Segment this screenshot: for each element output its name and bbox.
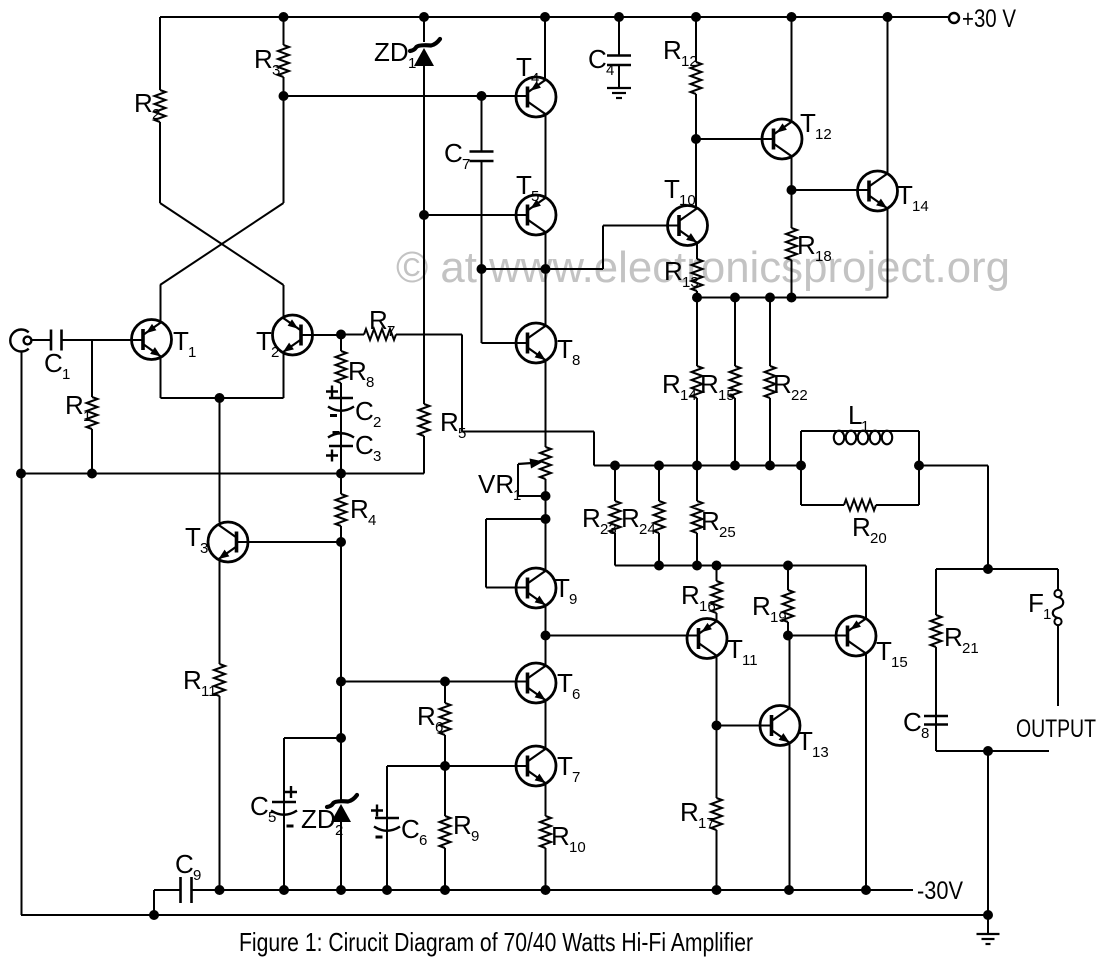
wire output top line (936, 568, 1058, 570)
wire VR1 bottom lead (545, 479, 547, 496)
node R15 bottom junction (730, 461, 740, 471)
wire through C2-C3 (340, 398, 342, 446)
wire C4 top lead (618, 17, 620, 56)
svg-text:C: C (588, 44, 607, 74)
wire C7 bottom lead (481, 161, 483, 343)
svg-text:19: 19 (770, 609, 787, 626)
resistor R4 (336, 494, 347, 526)
node T15 rail junction (861, 885, 871, 895)
wire T8 base line (482, 342, 528, 344)
resistor R17 (711, 798, 722, 830)
wire lower bias line (615, 565, 866, 567)
svg-text:5: 5 (268, 809, 276, 826)
svg-text:R: R (417, 701, 436, 731)
capacitor C2 (328, 398, 354, 411)
svg-text:2: 2 (335, 822, 343, 839)
transistor T13 (760, 706, 800, 746)
resistor R25 (692, 501, 703, 533)
capacitor C4 (607, 56, 631, 66)
resistor R18 label (797, 230, 832, 265)
wire T6 base line (341, 681, 528, 683)
transistor T13 label (797, 726, 829, 761)
resistor R19 (783, 590, 794, 622)
wire T2 base to R8 junction (301, 334, 341, 336)
wire C7 top lead (481, 96, 483, 152)
wire T2 collector riser (283, 285, 285, 318)
wire T12 base line (696, 138, 774, 140)
wire R2 top lead (159, 17, 161, 90)
wire ZD2 bottom lead (340, 820, 342, 890)
capacitor C2 label (355, 396, 381, 431)
wire R20 bottom side right (876, 504, 919, 506)
ground output (977, 934, 1000, 944)
node ZD1 T5-base junction (419, 210, 429, 220)
wire R9 top lead (444, 766, 446, 816)
resistor R14 label (662, 369, 697, 404)
wire R22 bottom lead (769, 398, 771, 466)
svg-text:2: 2 (152, 106, 160, 123)
input terminal (10, 329, 31, 351)
node C5 rail junction (279, 885, 289, 895)
svg-text:C: C (44, 348, 63, 378)
wire C6 top lead (386, 766, 388, 890)
wire R16 to T11 (716, 613, 718, 621)
svg-text:R: R (369, 305, 388, 335)
svg-text:R: R (797, 230, 816, 260)
node ground rail junction (983, 910, 993, 920)
capacitor C7 (470, 152, 494, 162)
wire R19 bottom lead (787, 622, 789, 636)
wire C5 hook (284, 738, 341, 890)
wire T3 emitter to R11 (219, 560, 221, 664)
plus sign C3 (326, 450, 338, 462)
svg-text:+30 V: +30 V (962, 5, 1016, 33)
resistor R25 label (701, 506, 736, 541)
node T5-T8 junction (541, 264, 551, 274)
wire R23 bottom lead (614, 533, 616, 566)
plus sign C6 (371, 805, 383, 817)
wire L1 box to output corner (919, 466, 988, 570)
wire R12 top lead (695, 17, 697, 62)
resistor R23 (610, 501, 621, 533)
wire R12 bottom lead (695, 94, 697, 139)
zener ZD1 (410, 39, 440, 66)
capacitor C5 (271, 802, 297, 815)
wire L1 box left edge (800, 431, 802, 505)
svg-text:6: 6 (572, 686, 580, 703)
svg-text:T: T (557, 668, 573, 698)
potentiometer VR1 (540, 447, 551, 479)
svg-text:R: R (681, 580, 700, 610)
capacitor C6 label (401, 814, 427, 849)
svg-text:12: 12 (681, 53, 698, 70)
capacitor C5 label (250, 791, 276, 826)
node C7 top junction (477, 91, 487, 101)
capacitor C7 label (444, 138, 470, 173)
svg-text:T: T (876, 636, 892, 666)
svg-text:R: R (348, 356, 367, 386)
svg-text:F: F (1028, 588, 1044, 618)
node VR1 wiper junction (541, 491, 551, 501)
svg-text:R: R (551, 821, 570, 851)
svg-text:3: 3 (272, 62, 280, 79)
svg-text:ZD: ZD (374, 37, 409, 67)
svg-text:T: T (557, 751, 573, 781)
potentiometer VR1 wiper arrow (518, 459, 544, 469)
transistor T6 (516, 663, 556, 703)
node ZD2 rail junction (336, 885, 346, 895)
wire T11 collector lead (716, 656, 718, 726)
node T13 rail junction (784, 885, 794, 895)
svg-text:2: 2 (271, 344, 279, 361)
capacitor C3 (328, 433, 354, 446)
resistor R11 label (183, 665, 217, 700)
resistor R8 label (348, 356, 374, 391)
svg-text:R: R (453, 810, 472, 840)
resistor R13 (692, 259, 703, 291)
svg-text:R: R (701, 506, 720, 536)
svg-text:T: T (664, 174, 680, 204)
resistor R22 label (773, 369, 808, 404)
resistor R11 (214, 664, 225, 696)
wire feedback line to R5 (21, 473, 424, 475)
node C6 rail junction (382, 885, 392, 895)
ground C4 (607, 88, 631, 98)
svg-text:Figure 1: Cirucit Diagram of 7: Figure 1: Cirucit Diagram of 70/40 Watts… (239, 927, 753, 957)
inductor L1 (834, 431, 844, 445)
resistor R9 (440, 816, 451, 848)
wire T7 emitter to R10 (545, 784, 547, 817)
wire R19 top lead (787, 566, 789, 591)
minus sign C5 (287, 825, 294, 828)
wire T8 collector lead (545, 269, 547, 326)
transistor T10 label (664, 174, 696, 209)
zener ZD1 label (374, 37, 416, 72)
transistor T1 (132, 320, 172, 360)
node R13 bottom junction (692, 293, 702, 303)
node R10 rail junction (541, 885, 551, 895)
resistor R19 label (752, 591, 787, 626)
node R3 bottom junction (279, 91, 289, 101)
node R6-R9 junction (440, 761, 450, 771)
wire junction to T9 collector (545, 496, 547, 571)
wire driver emitter bus (697, 297, 888, 299)
svg-text:T: T (557, 334, 573, 364)
transistor T3 (208, 522, 248, 562)
node R4-chain T6 base junction (336, 677, 346, 687)
svg-text:13: 13 (812, 744, 829, 761)
svg-text:R: R (852, 512, 871, 542)
wire rail to T12 emitter (791, 17, 793, 122)
capacitor C8 (924, 716, 948, 725)
svg-text:10: 10 (679, 192, 696, 209)
svg-text:3: 3 (373, 448, 381, 465)
svg-text:T: T (797, 726, 813, 756)
wire T1-T2 emitter join (161, 397, 284, 399)
svg-text:C: C (401, 814, 420, 844)
resistor R24 label (621, 503, 656, 538)
wire ground stub (987, 915, 989, 934)
svg-text:8: 8 (572, 352, 580, 369)
svg-text:ZD: ZD (301, 804, 336, 834)
wire ZD1 bottom lead (423, 64, 425, 215)
svg-text:C: C (175, 849, 194, 879)
wire R4 junction down chain (340, 542, 342, 802)
svg-text:2: 2 (373, 414, 381, 431)
node input ground junction (16, 469, 26, 479)
node R15 top junction (730, 293, 740, 303)
wire T1 emitter lead (160, 358, 162, 399)
resistor R23 label (582, 503, 617, 538)
wire T4 to T5 (545, 115, 547, 198)
node R24 bottom junction (654, 561, 664, 571)
resistor R12 (691, 62, 702, 94)
svg-text:R: R (680, 797, 699, 827)
resistor R4 label (350, 494, 376, 529)
transistor T15 label (876, 636, 908, 671)
node R1 bottom junction (87, 469, 97, 479)
svg-text:R: R (700, 369, 719, 399)
svg-text:C: C (903, 707, 922, 737)
node R16 top junction (712, 561, 722, 571)
wire R24 bottom lead (658, 533, 660, 566)
svg-text:9: 9 (471, 828, 479, 845)
wire C4 to ground (618, 65, 620, 88)
wire L1 box right edge (918, 431, 920, 505)
resistor R16 label (681, 580, 716, 615)
svg-text:T: T (897, 180, 913, 210)
plus sign C2 (326, 386, 338, 398)
wire R16 top lead (716, 566, 718, 582)
minus sign C6 (376, 836, 383, 839)
wire R14 top lead (696, 298, 698, 367)
node T14 rail junction (883, 12, 893, 22)
wire crossover diagonal left-to-right (160, 203, 284, 285)
node T9-T6 junction (541, 631, 551, 641)
node C5 hook junction (336, 733, 346, 743)
svg-text:25: 25 (719, 524, 736, 541)
wire R21 top lead (935, 569, 937, 615)
capacitor C9 (181, 877, 192, 903)
transistor T12 (762, 119, 802, 159)
transistor T14 label (897, 180, 929, 215)
wire crossover diagonal right-to-left (160, 203, 284, 285)
wire F1 top lead (1057, 569, 1059, 590)
svg-text:R: R (663, 35, 682, 65)
svg-text:8: 8 (921, 725, 929, 742)
node R6 top junction (440, 677, 450, 687)
node R8 top junction (336, 330, 346, 340)
node T9 collector junction (541, 514, 551, 524)
plus sign C5 (285, 786, 297, 798)
svg-text:4: 4 (531, 70, 539, 87)
node L1 right junction (914, 461, 924, 471)
wire L1 top side (801, 430, 919, 432)
transistor T12 label (800, 108, 832, 143)
resistor R3 (278, 45, 289, 77)
wire T13 base line (717, 725, 772, 727)
node R12 bottom junction (691, 134, 701, 144)
resistor R5 label (440, 407, 466, 442)
wire VR1 wiper hook (518, 464, 546, 496)
svg-text:1: 1 (188, 344, 196, 361)
resistor R7 (364, 329, 396, 340)
svg-text:T: T (800, 108, 816, 138)
wire C3 node to R4 (340, 474, 342, 495)
node R14 bottom junction (692, 461, 702, 471)
wire R3 junction to T4 base (284, 95, 528, 97)
wire R8 to C2 (340, 383, 342, 398)
resistor R2 (155, 90, 166, 122)
svg-text:R: R (662, 369, 681, 399)
wire F1 bottom lead (1057, 625, 1059, 706)
node C3 bottom junction (336, 469, 346, 479)
svg-text:6: 6 (419, 832, 427, 849)
svg-text:R: R (65, 390, 84, 420)
wire T7 base line (387, 765, 528, 767)
svg-text:R: R (582, 503, 601, 533)
wire R9 bottom lead (444, 848, 446, 890)
resistor R20 label (852, 512, 887, 547)
wire R8 top lead (340, 335, 342, 352)
transistor T5 (516, 195, 556, 235)
capacitor C1 (51, 330, 62, 351)
wire junction to T10 collector (695, 139, 697, 208)
svg-text:T: T (256, 326, 272, 356)
svg-text:11: 11 (742, 652, 758, 669)
wire R18 bottom lead (791, 260, 793, 298)
svg-text:R: R (350, 494, 369, 524)
transistor T11 (687, 619, 727, 659)
svg-text:15: 15 (891, 654, 908, 671)
svg-text:22: 22 (791, 387, 808, 404)
wire output down to ground rail (987, 751, 989, 915)
node T12-T14 junction (787, 185, 797, 195)
resistor R21 label (944, 622, 979, 657)
node R12 rail junction (691, 12, 701, 22)
resistor R21 (931, 615, 942, 647)
zener ZD2 (327, 795, 357, 822)
wire T2 emitter lead (283, 353, 285, 398)
wire R1 top lead (91, 340, 93, 398)
svg-text:9: 9 (569, 591, 577, 608)
wire T5 base line (424, 214, 528, 216)
svg-text:17: 17 (698, 815, 715, 832)
svg-text:C: C (355, 430, 374, 460)
wire T5 to junction (545, 233, 547, 270)
svg-text:7: 7 (462, 156, 470, 173)
transistor T3 label (185, 522, 208, 557)
wire T1 collector riser (160, 285, 162, 322)
wire T3 base line (237, 541, 341, 543)
svg-text:14: 14 (680, 387, 697, 404)
resistor R6 label (417, 701, 443, 736)
svg-text:18: 18 (815, 248, 832, 265)
wire T11 base line (546, 635, 699, 637)
resistor R7 label (369, 305, 395, 340)
svg-text:16: 16 (699, 598, 716, 615)
wire input jack down lead (21, 351, 23, 915)
wire ZD1 top lead (423, 17, 425, 42)
resistor R13 label (664, 256, 699, 291)
resistor R17 label (680, 797, 715, 832)
wire T10 emitter to R13 (696, 243, 698, 259)
transistor T9 label (554, 573, 577, 608)
svg-text:OUTPUT: OUTPUT (1016, 715, 1096, 743)
svg-text:T: T (516, 52, 532, 82)
transistor T8 (516, 323, 556, 363)
node R22 top junction (765, 293, 775, 303)
svg-text:R: R (134, 88, 153, 118)
wire T15 base line (788, 635, 848, 637)
node output junction bottom (983, 746, 993, 756)
wire R3 bottom lead (283, 77, 285, 96)
wire R5 bottom lead (423, 436, 425, 474)
wire bottom ground rail (21, 914, 988, 916)
svg-text:10: 10 (569, 839, 586, 856)
node R23 top junction (610, 461, 620, 471)
svg-text:21: 21 (962, 640, 979, 657)
svg-text:R: R (254, 44, 273, 74)
transistor T4 label (516, 52, 539, 87)
svg-text:C: C (355, 396, 374, 426)
wire R8 junction to R7 (341, 334, 364, 336)
wire R23 top lead (614, 466, 616, 502)
node R24 top junction (654, 461, 664, 471)
svg-text:1: 1 (1043, 606, 1051, 623)
svg-text:4: 4 (606, 62, 614, 79)
node ZD1 top rail junction (419, 12, 429, 22)
wire T14 emitter lead (887, 209, 889, 298)
svg-text:1: 1 (62, 366, 70, 383)
svg-text:9: 9 (193, 867, 201, 884)
wire T9 emitter lead (545, 606, 547, 636)
svg-text:T: T (554, 573, 570, 603)
wire T15 collector lead (865, 654, 867, 891)
node R3 top rail junction (279, 12, 289, 22)
node C7 bottom junction (477, 264, 487, 274)
resistor R1 label (65, 390, 91, 425)
node R25 bottom junction (692, 561, 702, 571)
wire R3 junction down to crossover (283, 96, 285, 203)
capacitor C1 label (44, 348, 70, 383)
transistor T2 (273, 315, 313, 355)
wire R2 bottom to crossover (159, 122, 161, 203)
wire R10 bottom lead (545, 848, 547, 890)
svg-text:T: T (185, 522, 201, 552)
+30V terminal (949, 13, 959, 23)
capacitor C8 label (903, 707, 929, 742)
wire R18 top lead (791, 190, 793, 228)
resistor R15 (730, 366, 741, 398)
wire R13 bottom lead (696, 291, 698, 298)
wire R21 to C8 (935, 647, 937, 751)
node R17 rail junction (712, 885, 722, 895)
wire junction to R17 (716, 726, 718, 799)
wire ZD1 node down to R5 (423, 215, 425, 404)
svg-text:3: 3 (200, 540, 208, 557)
wire R25 bottom lead (696, 533, 698, 566)
node R4 bottom junction (336, 537, 346, 547)
transistor T1 label (173, 326, 196, 361)
resistor R3 label (254, 44, 280, 79)
resistor R6 (440, 703, 451, 735)
resistor R8 (336, 351, 347, 383)
wire C3 bottom lead (340, 446, 342, 474)
wire T13 collector lead (789, 636, 791, 709)
resistor R20 (844, 500, 876, 511)
node R22 bottom junction (765, 461, 775, 471)
